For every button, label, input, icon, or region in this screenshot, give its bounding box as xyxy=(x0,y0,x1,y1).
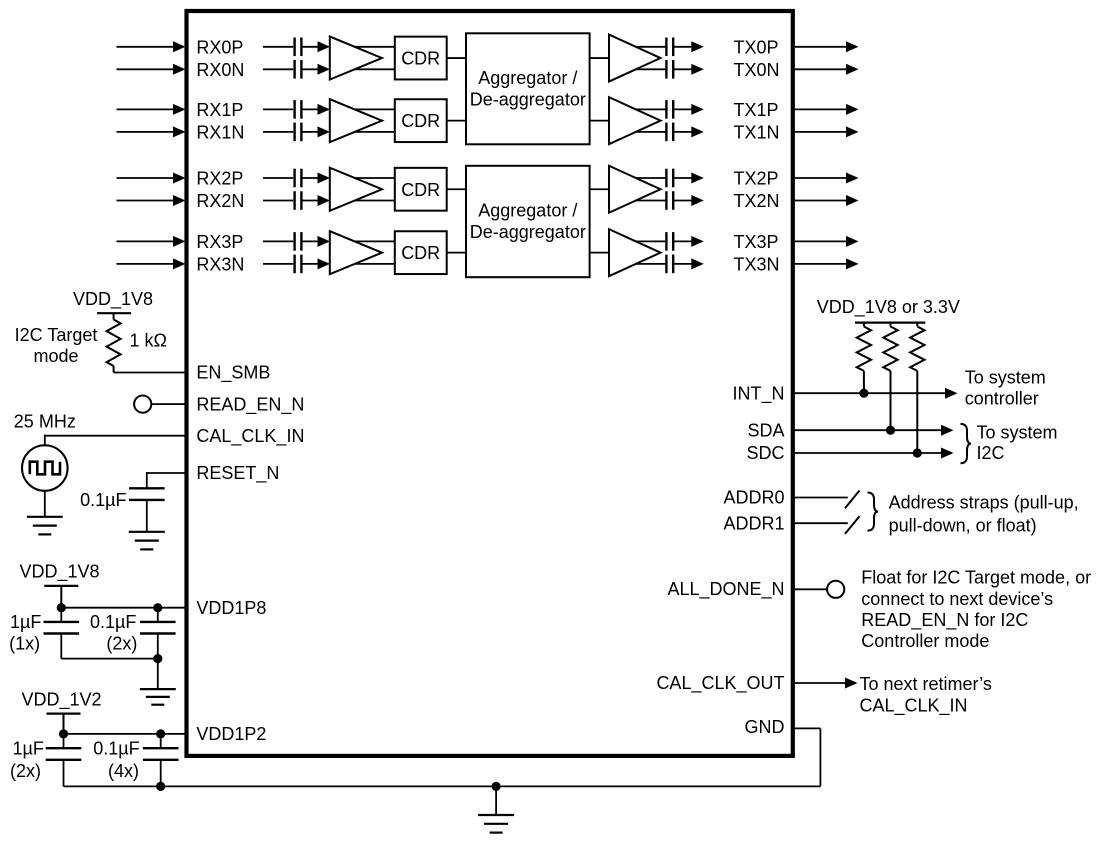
svg-text:CAL_CLK_OUT: CAL_CLK_OUT xyxy=(656,673,784,694)
wire TX3P cap to pin with arrowhead xyxy=(673,236,704,247)
svg-text:CDR: CDR xyxy=(401,111,440,131)
pin label TX0P xyxy=(734,37,779,57)
svg-text:VDD1P8: VDD1P8 xyxy=(196,598,266,618)
wire RX0P to coupling cap xyxy=(263,46,293,48)
wire RX1 amp output N to CDR xyxy=(355,131,395,133)
node junction at 1uF cap xyxy=(57,603,66,612)
op-amp RX0 limiting amplifier xyxy=(330,37,382,80)
value label 0.1uF (4x) xyxy=(93,738,139,781)
oscillator 25 MHz clock source xyxy=(22,445,68,491)
wire TX3N amp to coupling cap xyxy=(636,263,666,265)
pin label CAL_CLK_IN xyxy=(196,426,304,447)
capacitor AC coupling TX3N xyxy=(666,255,673,274)
wire RX3P to coupling cap xyxy=(263,240,293,242)
note Float for I2C Target mode xyxy=(861,568,1091,651)
note Address straps xyxy=(889,493,1079,536)
svg-text:RX0N: RX0N xyxy=(196,60,244,80)
capacitor C2 1uF (VDD1P8) xyxy=(44,608,80,659)
wire RX2P to coupling cap xyxy=(263,177,293,179)
power rail VDD_1V8 or 3.3V xyxy=(817,297,960,323)
CDR block channel 2 xyxy=(395,168,447,211)
svg-text:VDD_1V8 or 3.3V: VDD_1V8 or 3.3V xyxy=(817,297,960,318)
wire GND pin to ground bus xyxy=(793,728,821,786)
wire RX1P to coupling cap xyxy=(263,108,293,110)
wire RX0 amp output P to CDR xyxy=(355,46,395,48)
wire RX1P external input arrow xyxy=(117,104,186,115)
capacitor AC coupling TX2N xyxy=(666,191,673,210)
wire TX2N amp to coupling cap xyxy=(636,200,666,202)
wire CDR3 to aggregator xyxy=(447,252,466,254)
capacitor C5 0.1uF (VDD1P2) xyxy=(143,734,179,787)
node junction at 0.1uF cap (VDD1P2) xyxy=(156,729,165,738)
wire ADDR0 strap xyxy=(793,491,860,509)
wire oscillator to CAL_CLK_IN pin xyxy=(45,435,187,446)
open terminal READ_EN_N xyxy=(134,396,151,413)
svg-text:(1x): (1x) xyxy=(9,633,40,653)
pin label TX2N xyxy=(734,191,780,211)
wire ground tap down xyxy=(495,786,497,815)
wire RX0N external input arrow xyxy=(117,64,186,75)
svg-text:TX3P: TX3P xyxy=(734,232,779,252)
wire TX1P amp to coupling cap xyxy=(636,108,666,110)
wire RX2 amp output P to CDR xyxy=(355,177,395,179)
ground (system) xyxy=(478,815,514,833)
svg-text:RX2P: RX2P xyxy=(196,169,243,189)
svg-text:VDD1P2: VDD1P2 xyxy=(196,724,266,744)
svg-text:CDR: CDR xyxy=(401,49,440,69)
wire cap to amp RX3P with arrowhead xyxy=(301,236,330,247)
pin label INT_N xyxy=(732,383,784,404)
pin label VDD1P2 xyxy=(196,724,266,744)
svg-text:VDD_1V8: VDD_1V8 xyxy=(73,289,153,310)
op-amp TX0 output driver xyxy=(609,35,661,82)
capacitor AC coupling RX3N xyxy=(295,255,302,274)
wire TX1P external output arrow xyxy=(795,104,859,115)
wire ADDR1 strap xyxy=(793,516,860,534)
brace for address straps xyxy=(868,493,879,531)
open terminal ALL_DONE_N xyxy=(827,581,844,598)
wire TX3N cap to pin with arrowhead xyxy=(673,258,704,269)
wire TX1N external output arrow xyxy=(795,126,859,137)
svg-text:RX1P: RX1P xyxy=(196,100,243,120)
wire ground bus along bottom xyxy=(64,785,821,787)
wire TX0P external output arrow xyxy=(795,41,859,52)
ground (oscillator) xyxy=(27,517,63,535)
wire capacitor to ground xyxy=(146,500,148,532)
wire cap to amp RX3N with arrowhead xyxy=(301,258,330,269)
wire TX3P external output arrow xyxy=(795,236,859,247)
wire TX3P amp to coupling cap xyxy=(636,240,666,242)
wire RX0N to coupling cap xyxy=(263,68,293,70)
capacitor AC coupling TX1P xyxy=(666,100,673,119)
wire RESET_N pin to capacitor xyxy=(147,472,187,488)
node junction VDD1P2 cap bottom xyxy=(156,782,165,791)
wire TX2N cap to pin with arrowhead xyxy=(673,195,704,206)
capacitor AC coupling RX0N xyxy=(295,60,302,79)
svg-text:Float for I2C Target mode, or: Float for I2C Target mode, or xyxy=(861,568,1091,588)
svg-text:0.1µF: 0.1µF xyxy=(90,612,136,632)
ground (VDD1P8 caps) xyxy=(140,689,176,705)
svg-text:EN_SMB: EN_SMB xyxy=(196,363,270,384)
wire CAL_CLK_OUT to next retimer xyxy=(793,678,858,689)
svg-text:(2x): (2x) xyxy=(106,633,137,653)
wire CDR0 to aggregator xyxy=(447,57,466,59)
svg-text:READ_EN_N for I2C: READ_EN_N for I2C xyxy=(861,610,1028,631)
wire RX2N to coupling cap xyxy=(263,200,293,202)
capacitor AC coupling RX2N xyxy=(295,191,302,210)
op-amp RX2 limiting amplifier xyxy=(330,168,382,211)
pin label ADDR0 xyxy=(723,488,784,508)
node junction at 0.1uF cap xyxy=(153,603,162,612)
CDR block channel 0 xyxy=(395,37,447,80)
node junction SDA pull-up xyxy=(886,426,895,435)
wire TX3N external output arrow xyxy=(795,258,859,269)
svg-text:1µF: 1µF xyxy=(13,738,44,758)
svg-text:TX2N: TX2N xyxy=(734,191,780,211)
note To next retimer xyxy=(860,674,992,716)
pin label READ_EN_N xyxy=(196,394,304,415)
pin label TX1P xyxy=(734,100,779,120)
wire RX0 amp output N to CDR xyxy=(355,68,395,70)
svg-text:CDR: CDR xyxy=(401,180,440,200)
wire INT_N to system controller xyxy=(793,388,958,399)
svg-text:1 kΩ: 1 kΩ xyxy=(130,331,167,351)
note To system controller xyxy=(965,368,1046,409)
op-amp RX3 limiting amplifier xyxy=(330,231,382,274)
value label 1uF (1x) xyxy=(9,612,41,653)
wire aggregator to TX2 amp xyxy=(590,188,609,190)
svg-text:TX0N: TX0N xyxy=(734,60,780,80)
resistor pull-up for SDA xyxy=(883,323,897,431)
svg-text:TX2P: TX2P xyxy=(734,169,779,189)
power rail VDD_1V8 (supply) xyxy=(19,562,99,586)
wire RX0P external input arrow xyxy=(117,41,186,52)
capacitor C1 0.1uF (RESET_N) xyxy=(129,488,165,500)
wire RX1 amp output P to CDR xyxy=(355,108,395,110)
svg-text:INT_N: INT_N xyxy=(732,383,784,404)
svg-text:pull-down, or float): pull-down, or float) xyxy=(889,515,1037,535)
svg-text:RX0P: RX0P xyxy=(196,37,243,57)
node junction INT_N pull-up xyxy=(859,389,868,398)
wire VDD_1V2 to VDD1P2 pin xyxy=(64,714,187,734)
node junction ground tap xyxy=(492,782,501,791)
value label 0.1uF (2x) xyxy=(90,612,137,653)
power rail VDD_1V8 (I2C target pull-up) xyxy=(73,289,153,313)
pin label GND xyxy=(745,717,785,737)
note To system I2C xyxy=(977,423,1058,464)
svg-text:VDD_1V2: VDD_1V2 xyxy=(21,690,101,711)
svg-text:ADDR0: ADDR0 xyxy=(723,488,784,508)
CDR block channel 3 xyxy=(395,231,447,274)
wire cap to amp RX0P with arrowhead xyxy=(301,41,330,52)
svg-text:Aggregator /: Aggregator / xyxy=(478,201,577,221)
svg-text:controller: controller xyxy=(965,389,1039,409)
wire TX2P external output arrow xyxy=(795,173,859,184)
pin label RX0P xyxy=(196,37,243,57)
pin label TX3N xyxy=(734,254,780,274)
value label 0.1uF xyxy=(80,490,126,510)
svg-text:TX0P: TX0P xyxy=(734,37,779,57)
pin label VDD1P8 xyxy=(196,598,266,618)
capacitor AC coupling TX0P xyxy=(666,38,673,57)
block Aggregator/De-aggregator 2 xyxy=(466,166,590,277)
wire cap to amp RX1N with arrowhead xyxy=(301,126,330,137)
wire cap bottoms to ground xyxy=(61,654,162,689)
svg-text:To system: To system xyxy=(965,368,1046,388)
capacitor AC coupling RX2P xyxy=(295,169,302,188)
op-amp TX2 output driver xyxy=(609,166,661,213)
pin label RX2N xyxy=(196,191,244,211)
wire RX3P external input arrow xyxy=(117,236,186,247)
wire RX2P external input arrow xyxy=(117,173,186,184)
svg-text:Aggregator /: Aggregator / xyxy=(478,68,577,88)
svg-text:25 MHz: 25 MHz xyxy=(14,412,76,432)
svg-text:READ_EN_N: READ_EN_N xyxy=(196,394,304,415)
svg-text:(2x): (2x) xyxy=(10,761,41,781)
wire RX3N external input arrow xyxy=(117,258,186,269)
wire CDR2 to aggregator xyxy=(447,188,466,190)
value label 1uF (2x) xyxy=(10,738,44,781)
pin label RX3P xyxy=(196,232,243,252)
svg-text:(4x): (4x) xyxy=(108,761,139,781)
pin label CAL_CLK_OUT xyxy=(656,673,784,694)
capacitor AC coupling TX1N xyxy=(666,123,673,142)
svg-text:GND: GND xyxy=(745,717,785,737)
node junction SDC pull-up xyxy=(913,448,922,457)
svg-text:VDD_1V8: VDD_1V8 xyxy=(19,562,99,583)
svg-text:SDA: SDA xyxy=(747,420,784,440)
wire aggregator to TX0 amp xyxy=(590,57,609,59)
capacitor AC coupling RX1N xyxy=(295,123,302,142)
pin label TX2P xyxy=(734,169,779,189)
svg-text:De-aggregator: De-aggregator xyxy=(470,222,586,242)
wire RX2N external input arrow xyxy=(117,195,186,206)
svg-text:ADDR1: ADDR1 xyxy=(723,514,784,534)
op-amp TX1 output driver xyxy=(609,97,661,144)
wire RX3 amp output P to CDR xyxy=(355,240,395,242)
pin label RESET_N xyxy=(196,463,279,484)
CDR block channel 1 xyxy=(395,99,447,142)
capacitor AC coupling RX0P xyxy=(295,38,302,57)
wire oscillator to ground xyxy=(44,491,46,517)
label 25 MHz xyxy=(14,412,76,432)
block Aggregator/De-aggregator 1 xyxy=(466,33,590,144)
svg-text:0.1µF: 0.1µF xyxy=(80,490,126,510)
wire VDD_1V8 to VDD1P8 pin xyxy=(61,586,186,608)
wire READ_EN_N terminal to pin xyxy=(151,403,186,405)
capacitor C3 0.1uF (VDD1P8) xyxy=(140,608,176,659)
svg-text:I2C Target: I2C Target xyxy=(15,325,98,345)
wire TX0N cap to pin with arrowhead xyxy=(673,64,704,75)
label I2C Target mode xyxy=(15,325,98,366)
wire cap to amp RX2N with arrowhead xyxy=(301,195,330,206)
wire RX3 amp output N to CDR xyxy=(355,263,395,265)
wire cap to amp RX0N with arrowhead xyxy=(301,64,330,75)
svg-text:To next retimer’s: To next retimer’s xyxy=(860,674,992,694)
capacitor AC coupling TX3P xyxy=(666,232,673,251)
svg-text:RX3P: RX3P xyxy=(196,232,243,252)
svg-text:Controller mode: Controller mode xyxy=(861,631,989,651)
svg-text:I2C: I2C xyxy=(977,443,1005,463)
svg-text:TX1N: TX1N xyxy=(734,122,780,142)
wire ALL_DONE_N to terminal xyxy=(793,588,827,590)
svg-text:SDC: SDC xyxy=(746,443,784,463)
pin label RX1P xyxy=(196,100,243,120)
pin label RX0N xyxy=(196,60,244,80)
power rail VDD_1V2 (supply) xyxy=(21,690,101,714)
op-amp RX1 limiting amplifier xyxy=(330,99,382,142)
svg-text:To system: To system xyxy=(977,423,1058,443)
wire TX0P amp to coupling cap xyxy=(636,46,666,48)
svg-text:RX3N: RX3N xyxy=(196,254,244,274)
svg-text:TX1P: TX1P xyxy=(734,100,779,120)
wire RX3N to coupling cap xyxy=(263,263,293,265)
wire TX2P cap to pin with arrowhead xyxy=(673,173,704,184)
svg-text:De-aggregator: De-aggregator xyxy=(470,89,586,109)
pin label ALL_DONE_N xyxy=(667,579,784,600)
svg-text:1µF: 1µF xyxy=(10,612,41,632)
node junction at 1uF cap (VDD1P2) xyxy=(59,729,68,738)
brace for system I2C xyxy=(961,424,972,463)
resistor pull-up for INT_N xyxy=(857,323,871,394)
retimer chip U1 body xyxy=(187,11,793,756)
wire RX2 amp output N to CDR xyxy=(355,200,395,202)
capacitor C4 1uF (VDD1P2) xyxy=(46,734,82,787)
pin label TX1N xyxy=(734,122,780,142)
wire TX0N external output arrow xyxy=(795,64,859,75)
wire TX1N amp to coupling cap xyxy=(636,131,666,133)
svg-text:RESET_N: RESET_N xyxy=(196,463,279,484)
svg-text:CAL_CLK_IN: CAL_CLK_IN xyxy=(196,426,304,447)
svg-text:CDR: CDR xyxy=(401,243,440,263)
pin label RX3N xyxy=(196,254,244,274)
svg-text:TX3N: TX3N xyxy=(734,254,780,274)
pin label TX3P xyxy=(734,232,779,252)
wire SDC to system I2C xyxy=(793,448,954,459)
svg-text:CAL_CLK_IN: CAL_CLK_IN xyxy=(860,695,968,716)
wire aggregator to TX1 amp xyxy=(590,120,609,122)
wire TX0P cap to pin with arrowhead xyxy=(673,41,704,52)
pin label RX1N xyxy=(196,122,244,142)
value label 1 kOhm xyxy=(130,331,167,351)
wire cap to amp RX2P with arrowhead xyxy=(301,173,330,184)
capacitor AC coupling TX2P xyxy=(666,169,673,188)
pin label RX2P xyxy=(196,169,243,189)
wire CDR1 to aggregator xyxy=(447,120,466,122)
wire TX1P cap to pin with arrowhead xyxy=(673,104,704,115)
svg-text:ALL_DONE_N: ALL_DONE_N xyxy=(667,579,784,600)
wire TX1N cap to pin with arrowhead xyxy=(673,126,704,137)
wire aggregator to TX3 amp xyxy=(590,252,609,254)
capacitor AC coupling TX0N xyxy=(666,60,673,79)
resistor R1 1 kOhm pull-up xyxy=(107,313,121,372)
svg-text:Address straps (pull-up,: Address straps (pull-up, xyxy=(889,493,1079,513)
wire TX0N amp to coupling cap xyxy=(636,68,666,70)
wire SDA to system I2C xyxy=(793,425,954,436)
svg-text:0.1µF: 0.1µF xyxy=(93,738,139,758)
pin label EN_SMB xyxy=(196,363,270,384)
wire TX2P amp to coupling cap xyxy=(636,177,666,179)
wire TX2N external output arrow xyxy=(795,195,859,206)
capacitor AC coupling RX3P xyxy=(295,232,302,251)
wire RX1N external input arrow xyxy=(117,126,186,137)
pin label SDC xyxy=(746,443,784,463)
svg-text:mode: mode xyxy=(33,346,78,366)
wire RX1N to coupling cap xyxy=(263,131,293,133)
ground (RESET_N cap) xyxy=(129,532,165,550)
pin label TX0N xyxy=(734,60,780,80)
svg-text:RX2N: RX2N xyxy=(196,191,244,211)
resistor pull-up for SDC xyxy=(910,323,924,453)
svg-text:connect to next device’s: connect to next device’s xyxy=(861,589,1053,609)
svg-text:RX1N: RX1N xyxy=(196,122,244,142)
wire resistor to EN_SMB pin xyxy=(114,372,187,374)
pin label ADDR1 xyxy=(723,514,784,534)
op-amp TX3 output driver xyxy=(609,229,661,276)
pin label SDA xyxy=(747,420,784,440)
capacitor AC coupling RX1P xyxy=(295,100,302,119)
wire cap to amp RX1P with arrowhead xyxy=(301,104,330,115)
